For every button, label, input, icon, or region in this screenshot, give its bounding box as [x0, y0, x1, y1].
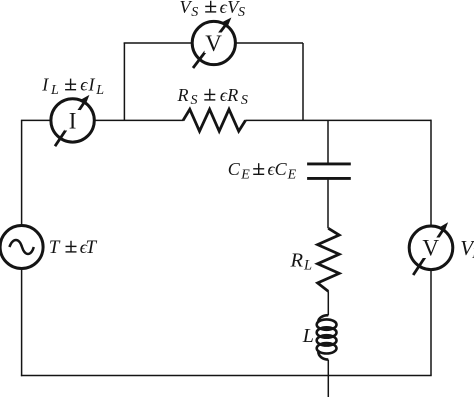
- wire main horizontal left of ammeter: [21, 119, 51, 121]
- svg-text:VE: VE: [460, 236, 474, 262]
- ammeter IL letter: [65, 110, 81, 131]
- voltmeter VE letter: [422, 238, 441, 259]
- wire left vertical top segment: [21, 120, 23, 225]
- wire left vertical bottom segment: [21, 269, 23, 377]
- AC source T circle: [0, 226, 43, 269]
- svg-text:I: I: [69, 108, 77, 133]
- inductor L: [317, 315, 337, 359]
- resistor RL: [318, 228, 340, 291]
- svg-text:L: L: [302, 325, 314, 347]
- wire capacitor branch upper: [327, 120, 329, 162]
- wire top loop right vertical: [302, 43, 304, 120]
- wire bottom horizontal: [21, 375, 432, 377]
- resistor RS: [183, 109, 245, 131]
- ammeter IL circle: [51, 99, 94, 142]
- wire right branch lower vertical: [430, 270, 432, 376]
- wire inductor to bottom edge: [327, 360, 329, 397]
- ammeter IL needle: [55, 95, 89, 146]
- wire top loop left vertical: [123, 43, 125, 120]
- wire main horizontal ammeter to resistor RS: [94, 119, 183, 121]
- voltmeter VS needle: [193, 18, 231, 69]
- capacitor CE bottom plate: [307, 177, 351, 180]
- voltmeter VE needle: [413, 222, 448, 275]
- voltmeter VS circle: [192, 21, 235, 64]
- wire top loop horizontal right: [235, 42, 303, 44]
- voltmeter VE circle: [409, 226, 453, 270]
- voltmeter VS letter: [205, 33, 224, 54]
- capacitor CE top plate: [307, 162, 351, 165]
- svg-text:V: V: [205, 31, 222, 56]
- svg-text:V: V: [422, 236, 439, 261]
- wire capacitor to resistor RL: [327, 180, 329, 229]
- wire right branch upper vertical: [430, 120, 432, 226]
- wire resistor RL to inductor L: [327, 291, 329, 315]
- wire main horizontal resistor RS to right corner: [245, 119, 431, 121]
- AC source sine wave: [9, 240, 33, 254]
- wire top loop horizontal left: [124, 42, 193, 44]
